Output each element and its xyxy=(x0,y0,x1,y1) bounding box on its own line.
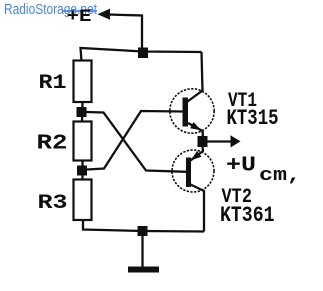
svg-text:+U: +U xyxy=(226,155,256,178)
svg-text:KT361: KT361 xyxy=(220,203,275,228)
svg-text:KT315: KT315 xyxy=(227,106,279,131)
svg-text:R2: R2 xyxy=(37,133,68,156)
svg-text:R3: R3 xyxy=(38,192,68,215)
svg-text:R1: R1 xyxy=(39,72,67,95)
svg-text:+E: +E xyxy=(67,7,92,27)
svg-text:cm,: cm, xyxy=(259,166,301,186)
